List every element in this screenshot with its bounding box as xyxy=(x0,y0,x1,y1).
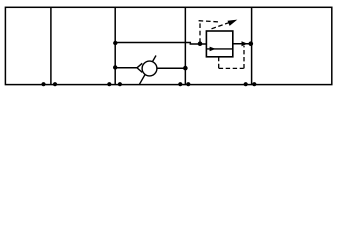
port dot 3b xyxy=(186,82,190,86)
pilot drain (dashed) from valve bottom xyxy=(218,57,220,69)
junction node: supply line tap upper xyxy=(113,41,117,45)
flow direction arrowhead on outlet line xyxy=(242,41,248,46)
pilot drain (dashed) riser to outlet line xyxy=(243,46,245,69)
adjustment arrow head xyxy=(228,20,238,26)
junction node: check line to vertical 3 xyxy=(183,66,188,71)
check valve CV1 ball circle (white fill clips diagonal) xyxy=(142,61,157,76)
relief valve RV1 internal flow arrowhead xyxy=(210,47,216,52)
junction node: supply line tap lower xyxy=(113,65,117,69)
wire: vertical line 4 (T return) xyxy=(251,7,253,84)
port dot 2a xyxy=(107,82,111,86)
port dot 2b xyxy=(118,82,122,86)
check valve CV1 seat xyxy=(137,63,142,72)
manifold enclosure xyxy=(5,7,331,84)
pilot line (dashed) top horizontal run xyxy=(199,21,219,22)
port dot 1b xyxy=(53,82,57,86)
wire: lower horizontal line to check valve xyxy=(115,67,137,69)
relief valve RV1 internal flow line xyxy=(206,48,232,50)
junction node: outlet to return line xyxy=(249,41,254,46)
wire: valve outlet line xyxy=(233,43,252,45)
port dot 4b xyxy=(252,82,256,86)
adjustment arrow shaft (dashed diagonal) xyxy=(212,22,230,28)
junction node: pilot branch on inlet line xyxy=(198,41,203,46)
wire: check valve to vertical line 3 xyxy=(157,67,185,69)
port dot 3a xyxy=(178,82,182,86)
port dot 4a xyxy=(244,82,248,86)
wire: upper horizontal line to valve inlet (with jog) xyxy=(115,43,206,45)
relief valve RV1 body xyxy=(206,31,232,57)
pilot line (dashed) riser at valve inlet xyxy=(199,21,201,43)
wire: vertical line 3 xyxy=(184,7,186,84)
check valve CV1 adjustment diagonal xyxy=(140,56,157,85)
port dot 1a xyxy=(41,82,45,86)
wire: vertical line 1 xyxy=(50,7,52,84)
wire: vertical line 2 (P supply) xyxy=(114,7,116,84)
pilot drain (dashed) horizontal run xyxy=(219,67,244,69)
